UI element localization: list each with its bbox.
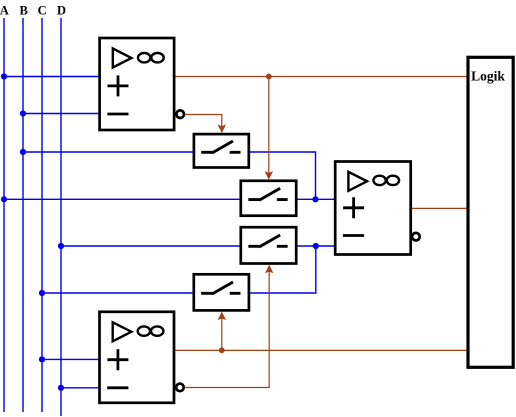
node C tap junction 2 <box>39 356 45 362</box>
wire B to U1 - input <box>23 113 100 115</box>
bus line A <box>3 18 5 412</box>
wire D to switch S3 input <box>61 245 241 247</box>
svg-text:Logik: Logik <box>471 68 505 83</box>
wire U2 output to Logik <box>411 207 468 209</box>
node A tap junction <box>1 73 7 79</box>
arrow into S2 control (down) <box>265 171 273 180</box>
node U3 output junction <box>219 347 225 353</box>
wire U3 inverted output to S3 control <box>185 271 269 387</box>
op-amp U2 <box>335 162 411 255</box>
op-amp U1 inverted output bubble <box>176 110 184 118</box>
node junction S3/S4 outputs <box>313 243 319 249</box>
wire D to U3 - input <box>61 387 100 389</box>
wire C to switch S4 input <box>42 292 194 294</box>
label A <box>0 4 9 18</box>
node D tap junction <box>58 243 64 249</box>
wire S2 output to U2 + input <box>296 198 335 200</box>
op-amp U3 inverted output bubble <box>176 384 184 392</box>
node junction S1/S2 outputs <box>312 196 318 202</box>
wire S4 output to U2 - node <box>248 246 315 293</box>
bus line C <box>41 18 43 412</box>
wire B to switch S1 input <box>23 151 194 153</box>
switch S3 <box>241 227 296 263</box>
op-amp U1 <box>100 38 175 130</box>
op-amp U2 inverted output bubble <box>412 233 420 241</box>
label D <box>57 4 66 18</box>
node B tap junction 2 <box>20 149 26 155</box>
arrow into S4 control (up) <box>218 312 226 321</box>
wire U1 inverted output to S1 control <box>186 115 222 127</box>
arrow into S1 control (down) <box>218 125 226 134</box>
wire U3 output branch to S4 control <box>221 318 223 350</box>
Logik label <box>471 68 505 83</box>
node U1 output junction <box>266 74 272 80</box>
wire A to U1 + input <box>4 76 100 78</box>
node B tap junction <box>20 110 26 116</box>
op-amp U3 <box>100 312 175 403</box>
label B <box>20 4 28 18</box>
bus line D <box>60 18 62 416</box>
arrow into S3 control (up) <box>265 265 273 274</box>
svg-text:D: D <box>57 4 66 18</box>
wire S1 output to U2 + node <box>249 152 316 199</box>
wire S3 output to U2 - input <box>296 245 335 247</box>
Logik block <box>468 57 513 367</box>
switch S4 <box>194 274 249 310</box>
wire U1 output branch to S2 control <box>268 77 270 174</box>
label C <box>38 4 47 18</box>
switch S2 <box>241 181 296 216</box>
wire U3 output to Logik <box>174 349 467 351</box>
node D tap junction 2 <box>58 385 64 391</box>
wire C to U3 + input <box>42 358 100 360</box>
node A tap junction 2 <box>1 196 7 202</box>
node C tap junction <box>39 290 45 296</box>
svg-text:B: B <box>20 4 28 18</box>
switch S1 <box>194 134 249 167</box>
bus line B <box>22 18 24 412</box>
svg-text:A: A <box>0 4 9 18</box>
svg-text:C: C <box>38 4 47 18</box>
wire U1 output to Logik <box>174 76 467 78</box>
wire A to switch S2 input <box>4 198 241 200</box>
